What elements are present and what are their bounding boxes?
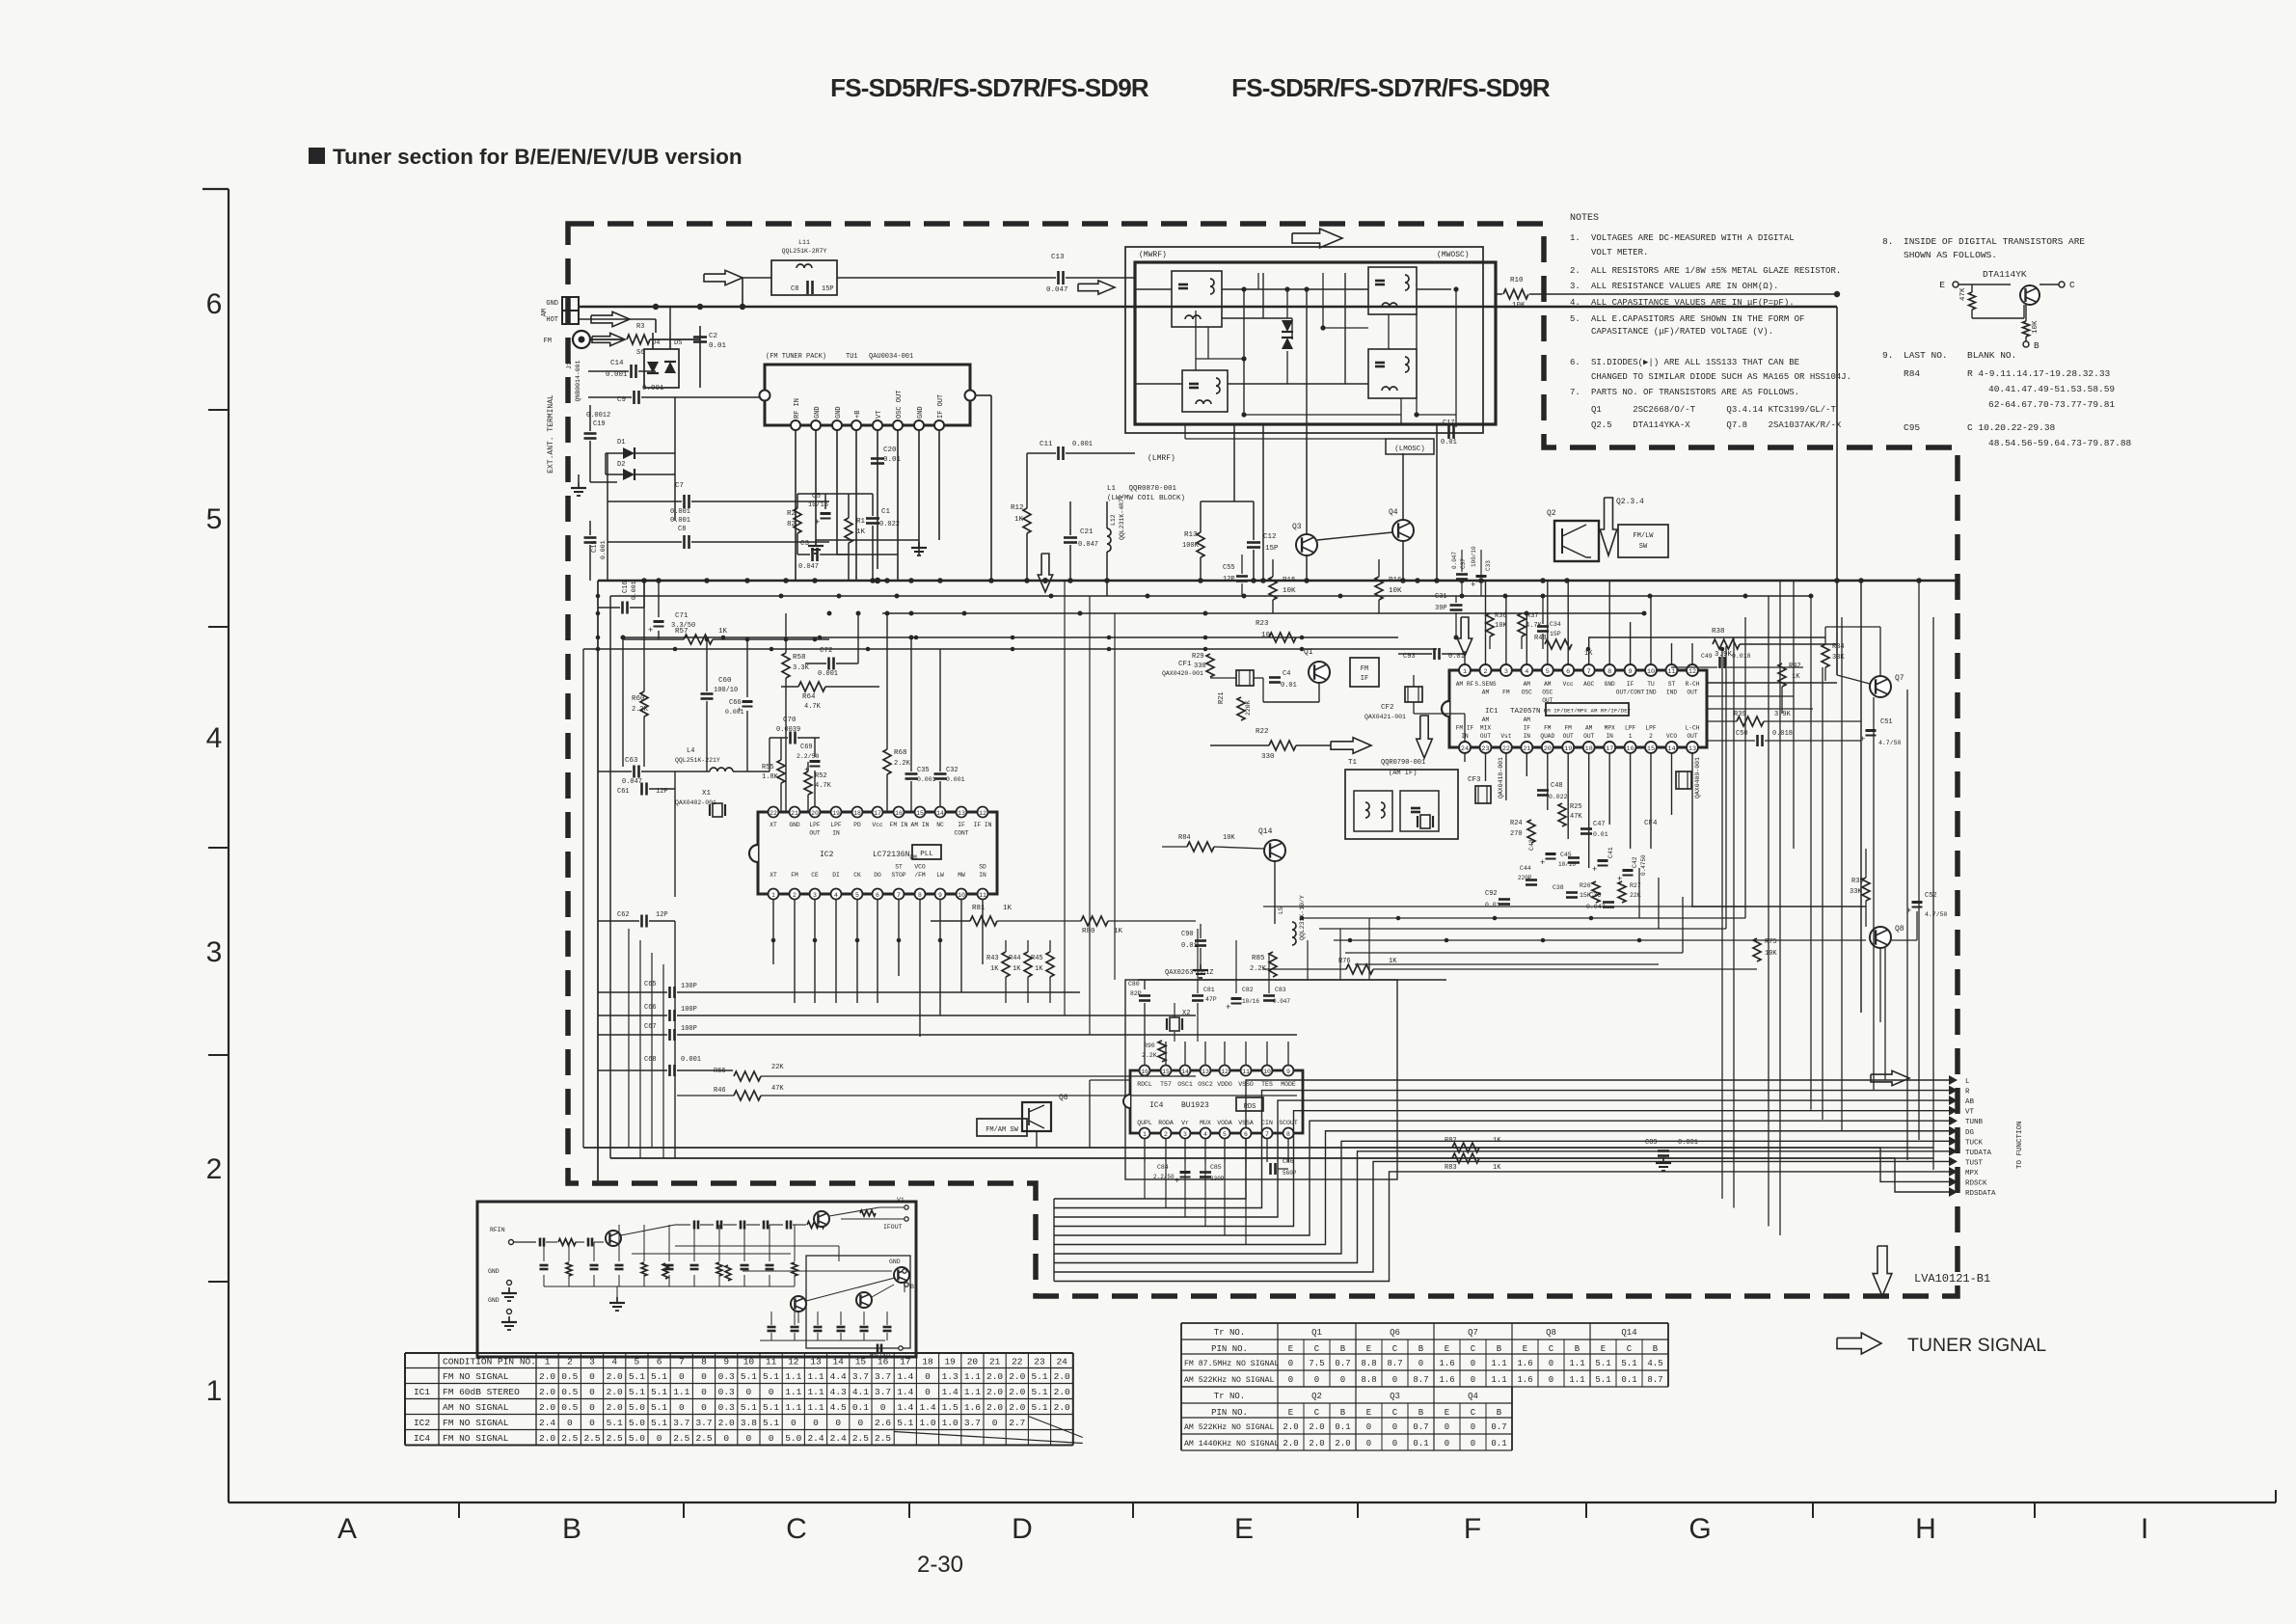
svg-text:0: 0 xyxy=(679,1371,685,1382)
svg-text:0.001: 0.001 xyxy=(631,581,637,600)
svg-text:82: 82 xyxy=(787,521,796,528)
svg-text:6: 6 xyxy=(206,288,223,320)
svg-text:0: 0 xyxy=(925,1387,931,1397)
svg-text:4.5: 4.5 xyxy=(1647,1359,1662,1368)
svg-text:7.5: 7.5 xyxy=(1309,1359,1324,1368)
svg-text:R68: R68 xyxy=(894,749,907,757)
svg-text:R36: R36 xyxy=(1495,612,1507,620)
svg-text:BU1923: BU1923 xyxy=(1181,1101,1209,1110)
svg-text:B: B xyxy=(1418,1408,1424,1418)
svg-text:1.6: 1.6 xyxy=(1439,1375,1454,1385)
svg-text:AGC: AGC xyxy=(1583,681,1594,688)
svg-text:100P: 100P xyxy=(681,1006,697,1014)
svg-text:0.001: 0.001 xyxy=(670,517,690,525)
svg-text:LVA10121-B1: LVA10121-B1 xyxy=(1914,1272,1990,1286)
svg-text:+: + xyxy=(1175,1177,1179,1186)
svg-text:5.1: 5.1 xyxy=(629,1371,645,1382)
svg-text:1.1: 1.1 xyxy=(785,1371,801,1382)
svg-text:C: C xyxy=(786,1513,807,1545)
svg-text:C12: C12 xyxy=(1263,533,1277,541)
svg-text:1: 1 xyxy=(206,1375,223,1407)
svg-text:1K: 1K xyxy=(718,628,728,636)
svg-text:0.3: 0.3 xyxy=(718,1387,735,1397)
svg-text:0: 0 xyxy=(657,1433,662,1444)
svg-text:CF4: CF4 xyxy=(1644,820,1658,827)
svg-text:ALL E.CAPASITORS ARE SHOWN IN: ALL E.CAPASITORS ARE SHOWN IN THE FORM O… xyxy=(1591,314,1804,324)
svg-text:(LMRF): (LMRF) xyxy=(1148,454,1175,463)
svg-text:2.0: 2.0 xyxy=(1009,1402,1025,1413)
svg-text:RDSCK: RDSCK xyxy=(1965,1180,1987,1188)
svg-text:L1 QQR0870-001: L1 QQR0870-001 xyxy=(1107,485,1177,493)
svg-text:330: 330 xyxy=(1194,663,1206,670)
svg-text:0: 0 xyxy=(791,1418,797,1428)
svg-text:2.0: 2.0 xyxy=(718,1418,735,1428)
svg-text:R1: R1 xyxy=(856,518,866,526)
svg-text:1.1: 1.1 xyxy=(1569,1375,1584,1385)
svg-text:0: 0 xyxy=(589,1387,595,1397)
svg-text:2.5: 2.5 xyxy=(583,1433,600,1444)
svg-text:47P: 47P xyxy=(1205,996,1217,1003)
svg-text:5.1: 5.1 xyxy=(607,1418,623,1428)
svg-text:PD: PD xyxy=(853,822,861,828)
svg-text:IN: IN xyxy=(1606,733,1613,740)
svg-text:100/10: 100/10 xyxy=(1471,546,1477,567)
svg-text:FM: FM xyxy=(1544,725,1552,732)
svg-text:TA2057N: TA2057N xyxy=(1510,708,1541,716)
svg-text:1.1: 1.1 xyxy=(807,1402,824,1413)
svg-text:2.6: 2.6 xyxy=(875,1418,891,1428)
svg-text:0: 0 xyxy=(1314,1375,1319,1385)
svg-text:19: 19 xyxy=(944,1357,956,1367)
svg-text:2-30: 2-30 xyxy=(917,1552,963,1578)
svg-text:2.7: 2.7 xyxy=(1009,1418,1025,1428)
svg-text:C95: C95 xyxy=(1904,422,1920,433)
svg-text:5.1: 5.1 xyxy=(763,1418,779,1428)
svg-text:FS-SD5R/FS-SD7R/FS-SD9R: FS-SD5R/FS-SD7R/FS-SD9R xyxy=(1231,73,1551,102)
svg-text:DG: DG xyxy=(1965,1129,1975,1137)
svg-text:FM NO SIGNAL: FM NO SIGNAL xyxy=(443,1433,509,1444)
svg-text:330P: 330P xyxy=(1210,1176,1225,1182)
svg-text:IF: IF xyxy=(1524,725,1531,732)
svg-text:13: 13 xyxy=(1688,745,1696,753)
svg-text:22: 22 xyxy=(1502,745,1510,753)
svg-text:TUNER SIGNAL: TUNER SIGNAL xyxy=(1907,1335,2046,1356)
svg-text:C20: C20 xyxy=(883,447,897,454)
svg-text:0.1: 0.1 xyxy=(852,1402,869,1413)
svg-text:GND: GND xyxy=(917,406,925,419)
svg-text:0.047: 0.047 xyxy=(798,563,819,571)
svg-text:PLL: PLL xyxy=(920,851,933,858)
svg-text:D2: D2 xyxy=(617,461,625,469)
svg-text:Q1: Q1 xyxy=(1304,648,1313,657)
svg-text:2: 2 xyxy=(1649,733,1653,740)
svg-text:0: 0 xyxy=(1418,1359,1423,1368)
svg-text:C72: C72 xyxy=(820,647,833,655)
svg-text:FM IF/DET/MPX AM RF/IF/DET: FM IF/DET/MPX AM RF/IF/DET xyxy=(1544,708,1632,715)
svg-text:GND: GND xyxy=(546,300,558,308)
svg-text:4.7/50: 4.7/50 xyxy=(1925,911,1948,918)
svg-text:QAX0420-001: QAX0420-001 xyxy=(1162,670,1203,677)
svg-text:B: B xyxy=(1575,1344,1580,1354)
svg-text:L4: L4 xyxy=(687,747,694,755)
svg-text:C89: C89 xyxy=(1645,1139,1658,1147)
svg-text:0: 0 xyxy=(1288,1375,1293,1385)
svg-text:IF: IF xyxy=(1627,681,1634,688)
svg-text:8.8: 8.8 xyxy=(1361,1359,1376,1368)
svg-text:V1: V1 xyxy=(897,1197,905,1204)
svg-text:FM: FM xyxy=(1502,690,1510,696)
svg-text:15: 15 xyxy=(916,810,924,817)
svg-text:0.018: 0.018 xyxy=(1772,730,1793,738)
svg-text:8.7: 8.7 xyxy=(1413,1375,1428,1385)
svg-text:OSCOUT: OSCOUT xyxy=(870,1352,892,1359)
svg-text:8: 8 xyxy=(1607,668,1611,676)
svg-text:0: 0 xyxy=(1445,1439,1449,1448)
svg-text:C81: C81 xyxy=(1203,987,1215,993)
svg-text:IC2: IC2 xyxy=(820,851,834,859)
svg-text:8.7: 8.7 xyxy=(1647,1375,1662,1385)
svg-text:AM 522KHz NO SIGNAL: AM 522KHz NO SIGNAL xyxy=(1184,1423,1274,1432)
svg-text:22: 22 xyxy=(1012,1357,1023,1367)
svg-text:R48: R48 xyxy=(1534,635,1547,642)
svg-text:R80: R80 xyxy=(1082,928,1095,935)
svg-text:PIN NO.: PIN NO. xyxy=(1211,1408,1248,1418)
svg-text:R52: R52 xyxy=(815,772,827,780)
svg-text:XT: XT xyxy=(770,872,777,879)
svg-text:2.0: 2.0 xyxy=(1283,1422,1298,1432)
svg-text:0: 0 xyxy=(1366,1439,1371,1448)
svg-text:1K: 1K xyxy=(1389,958,1397,965)
svg-text:IN: IN xyxy=(979,872,986,879)
svg-text:B: B xyxy=(1653,1344,1659,1354)
svg-text:R38: R38 xyxy=(1712,628,1725,636)
svg-text:6: 6 xyxy=(1566,668,1570,676)
svg-text:0: 0 xyxy=(701,1402,707,1413)
svg-text:IN: IN xyxy=(832,830,840,837)
svg-text:OSC OUT: OSC OUT xyxy=(896,391,904,419)
svg-text:R81: R81 xyxy=(972,905,986,912)
svg-text:E: E xyxy=(1366,1344,1371,1354)
svg-text:1K: 1K xyxy=(1014,516,1024,524)
svg-text:23: 23 xyxy=(1481,745,1489,753)
svg-text:11: 11 xyxy=(979,892,986,899)
svg-text:20: 20 xyxy=(967,1357,979,1367)
svg-text:1.1: 1.1 xyxy=(785,1402,801,1413)
svg-text:PIN NO.: PIN NO. xyxy=(1211,1344,1248,1354)
svg-text:D5: D5 xyxy=(674,339,682,347)
svg-text:C38: C38 xyxy=(1553,884,1564,891)
svg-text:Q3: Q3 xyxy=(1390,1392,1400,1401)
svg-text:MUX: MUX xyxy=(1200,1120,1211,1126)
svg-text:C35: C35 xyxy=(917,767,930,774)
svg-text:AM NO SIGNAL: AM NO SIGNAL xyxy=(443,1402,509,1413)
svg-text:2.0: 2.0 xyxy=(986,1371,1003,1382)
svg-text:0: 0 xyxy=(1288,1359,1293,1368)
svg-text:2.0: 2.0 xyxy=(607,1371,623,1382)
svg-text:5.1: 5.1 xyxy=(651,1418,667,1428)
svg-text:R21: R21 xyxy=(1218,691,1226,704)
svg-text:FM 60dB STEREO: FM 60dB STEREO xyxy=(443,1387,520,1397)
svg-text:C67: C67 xyxy=(644,1023,657,1031)
svg-text:2.0: 2.0 xyxy=(1283,1439,1298,1448)
svg-text:C69: C69 xyxy=(800,744,813,751)
svg-text:FM: FM xyxy=(544,338,552,345)
svg-text:1.0: 1.0 xyxy=(942,1418,959,1428)
svg-text:B: B xyxy=(910,1284,914,1290)
svg-text:VT: VT xyxy=(876,411,883,419)
svg-text:0: 0 xyxy=(880,1402,886,1413)
svg-text:2.5: 2.5 xyxy=(607,1433,623,1444)
svg-text:C71: C71 xyxy=(675,612,689,620)
svg-text:RFIN: RFIN xyxy=(490,1227,505,1233)
svg-text:2.5: 2.5 xyxy=(852,1433,869,1444)
svg-text:C: C xyxy=(1471,1344,1476,1354)
svg-text:5: 5 xyxy=(1223,1131,1227,1138)
svg-text:RF IN: RF IN xyxy=(794,398,801,419)
svg-text:0.001: 0.001 xyxy=(670,508,690,516)
svg-text:10K: 10K xyxy=(1389,587,1402,595)
svg-text:OUT: OUT xyxy=(1563,733,1574,740)
svg-text:AM: AM xyxy=(1482,690,1490,696)
svg-text:+: + xyxy=(815,518,820,528)
svg-text:C82: C82 xyxy=(1242,987,1254,993)
svg-text:0: 0 xyxy=(1471,1422,1475,1432)
svg-text:E: E xyxy=(1366,1408,1371,1418)
svg-text:1K: 1K xyxy=(1013,965,1021,973)
svg-text:0: 0 xyxy=(1471,1439,1475,1448)
svg-text:2.2K: 2.2K xyxy=(1142,1052,1157,1059)
svg-text:9.: 9. xyxy=(1882,350,1893,361)
svg-text:CF3: CF3 xyxy=(1468,776,1481,784)
svg-text:2.0: 2.0 xyxy=(1009,1371,1025,1382)
svg-text:E: E xyxy=(1288,1408,1293,1418)
svg-text:0.1: 0.1 xyxy=(1413,1439,1428,1448)
svg-text:12P: 12P xyxy=(1223,576,1235,583)
svg-text:AB: AB xyxy=(1965,1098,1975,1106)
svg-text:Q14: Q14 xyxy=(1621,1328,1636,1338)
svg-text:1.4: 1.4 xyxy=(897,1402,913,1413)
svg-text:QAU0034-001: QAU0034-001 xyxy=(869,353,913,361)
svg-text:0: 0 xyxy=(746,1433,752,1444)
svg-text:FM/AM SW: FM/AM SW xyxy=(986,1126,1018,1134)
svg-text:C41: C41 xyxy=(1607,847,1614,858)
svg-text:2.4: 2.4 xyxy=(539,1418,555,1428)
svg-text:1.5: 1.5 xyxy=(942,1402,959,1413)
svg-text:Q4: Q4 xyxy=(1389,508,1398,517)
svg-text:C47: C47 xyxy=(1593,821,1606,828)
svg-text:0.018: 0.018 xyxy=(1732,653,1751,660)
svg-text:SHOWN AS FOLLOWS.: SHOWN AS FOLLOWS. xyxy=(1904,250,1997,260)
svg-text:NC: NC xyxy=(936,822,944,828)
svg-text:C19: C19 xyxy=(593,420,606,428)
svg-text:Tuner section for B/E/EN/EV/UB: Tuner section for B/E/EN/EV/UB version xyxy=(333,145,743,169)
svg-text:0.047: 0.047 xyxy=(622,778,642,786)
svg-text:24: 24 xyxy=(1056,1357,1067,1367)
svg-text:R85: R85 xyxy=(1252,955,1265,962)
svg-text:0.01: 0.01 xyxy=(1441,439,1457,447)
svg-text:R46: R46 xyxy=(714,1087,726,1095)
svg-text:+: + xyxy=(1471,581,1475,590)
svg-text:3.7: 3.7 xyxy=(875,1371,891,1382)
svg-text:47K: 47K xyxy=(771,1085,784,1093)
svg-text:0.047: 0.047 xyxy=(1451,552,1458,569)
svg-text:3.7: 3.7 xyxy=(852,1371,869,1382)
svg-text:0.1: 0.1 xyxy=(1621,1375,1636,1385)
svg-text:OUT: OUT xyxy=(1480,733,1491,740)
svg-text:0: 0 xyxy=(925,1371,931,1382)
svg-text:12P: 12P xyxy=(656,911,668,919)
svg-text:E: E xyxy=(1601,1344,1606,1354)
svg-text:L5: L5 xyxy=(1278,907,1284,914)
svg-text:4.1: 4.1 xyxy=(852,1387,869,1397)
svg-text:7: 7 xyxy=(1587,668,1591,676)
svg-text:QQL251K-221Y: QQL251K-221Y xyxy=(675,757,720,764)
svg-text:0.3: 0.3 xyxy=(718,1402,735,1413)
svg-text:MW: MW xyxy=(958,872,965,879)
svg-text:0: 0 xyxy=(723,1433,729,1444)
svg-text:TO FUNCTION: TO FUNCTION xyxy=(2016,1121,2024,1169)
svg-text:VOLT METER.: VOLT METER. xyxy=(1591,248,1648,257)
svg-text:TUNB: TUNB xyxy=(1965,1119,1984,1126)
svg-text:OSC: OSC xyxy=(1542,690,1553,696)
svg-text:0.3: 0.3 xyxy=(718,1371,735,1382)
svg-text:1.1: 1.1 xyxy=(964,1371,981,1382)
svg-text:IC2: IC2 xyxy=(414,1418,430,1428)
svg-text:R15: R15 xyxy=(1283,577,1296,584)
svg-text:C: C xyxy=(2069,280,2075,290)
svg-text:INSIDE OF DIGITAL TRANSISTORS: INSIDE OF DIGITAL TRANSISTORS ARE xyxy=(1904,236,2085,247)
svg-text:OUT/CONT: OUT/CONT xyxy=(1616,690,1645,696)
svg-text:(FM TUNER PACK): (FM TUNER PACK) xyxy=(766,353,826,361)
svg-text:0.7: 0.7 xyxy=(1413,1422,1428,1432)
svg-text:QQL231K-10/Y: QQL231K-10/Y xyxy=(1299,895,1306,940)
svg-text:15: 15 xyxy=(1162,1069,1170,1075)
svg-text:R83: R83 xyxy=(1445,1164,1457,1172)
svg-text:ST: ST xyxy=(895,864,903,871)
svg-text:(LW/MW COIL BLOCK): (LW/MW COIL BLOCK) xyxy=(1107,495,1185,502)
svg-text:100K: 100K xyxy=(1182,542,1200,550)
svg-text:IN: IN xyxy=(1524,733,1531,740)
svg-text:R13: R13 xyxy=(1184,531,1198,539)
svg-text:CF1: CF1 xyxy=(1178,661,1192,668)
svg-text:12: 12 xyxy=(979,810,986,817)
svg-text:3.: 3. xyxy=(1570,282,1580,291)
svg-text:2.2/50: 2.2/50 xyxy=(797,753,820,760)
svg-text:FM NO SIGNAL: FM NO SIGNAL xyxy=(443,1371,509,1382)
svg-text:4: 4 xyxy=(1525,668,1528,676)
svg-text:AM: AM xyxy=(1544,681,1552,688)
svg-text:R37: R37 xyxy=(1526,612,1539,620)
svg-text:C44: C44 xyxy=(1520,865,1531,872)
svg-text:0: 0 xyxy=(679,1402,685,1413)
svg-text:5.0: 5.0 xyxy=(629,1418,645,1428)
svg-text:2.5: 2.5 xyxy=(673,1433,689,1444)
svg-text:NOTES: NOTES xyxy=(1570,213,1599,224)
svg-text:C17: C17 xyxy=(1443,420,1455,427)
svg-text:0: 0 xyxy=(769,1387,774,1397)
svg-text:0.001: 0.001 xyxy=(946,776,965,783)
svg-text:2.0: 2.0 xyxy=(1054,1371,1070,1382)
svg-text:R26: R26 xyxy=(1580,882,1591,889)
svg-text:6: 6 xyxy=(1244,1131,1248,1138)
svg-text:ALL RESISTORS ARE 1/8W ±5% MET: ALL RESISTORS ARE 1/8W ±5% METAL GLAZE R… xyxy=(1591,266,1841,276)
svg-text:5: 5 xyxy=(855,892,859,899)
svg-text:B: B xyxy=(1340,1344,1346,1354)
svg-text:0.047: 0.047 xyxy=(1273,998,1290,1005)
svg-text:20: 20 xyxy=(811,810,819,817)
svg-text:FM: FM xyxy=(1361,665,1368,673)
svg-text:C11: C11 xyxy=(1040,441,1053,448)
svg-text:2.0: 2.0 xyxy=(1009,1387,1025,1397)
svg-text:Tr NO.: Tr NO. xyxy=(1214,1392,1245,1401)
svg-text:4: 4 xyxy=(206,722,223,754)
svg-text:C2: C2 xyxy=(709,333,717,340)
svg-text:B: B xyxy=(1340,1408,1346,1418)
svg-text:1: 1 xyxy=(771,892,775,899)
svg-text:E: E xyxy=(1939,280,1945,290)
svg-text:EXT.ANT. TERMINAL: EXT.ANT. TERMINAL xyxy=(547,394,555,474)
svg-text:0.047: 0.047 xyxy=(1586,904,1606,910)
svg-text:Q6: Q6 xyxy=(1059,1094,1068,1102)
svg-text:FS-SD5R/FS-SD7R/FS-SD9R: FS-SD5R/FS-SD7R/FS-SD9R xyxy=(830,73,1149,102)
svg-text:5.: 5. xyxy=(1570,314,1580,324)
svg-text:21: 21 xyxy=(989,1357,1001,1367)
svg-text:3: 3 xyxy=(206,936,223,968)
svg-text:FM 87.5MHz NO SIGNAL: FM 87.5MHz NO SIGNAL xyxy=(1184,1360,1279,1368)
svg-text:LPF: LPF xyxy=(1625,725,1635,732)
svg-text:C 10.20.22-29.38: C 10.20.22-29.38 xyxy=(1967,422,2056,433)
svg-text:Q14: Q14 xyxy=(1258,827,1273,836)
svg-text:DTA114YK: DTA114YK xyxy=(1983,269,2027,280)
svg-text:GND: GND xyxy=(789,822,800,828)
svg-text:FM NO SIGNAL: FM NO SIGNAL xyxy=(443,1418,509,1428)
svg-text:R22: R22 xyxy=(1256,728,1269,736)
svg-text:R60: R60 xyxy=(632,695,645,703)
svg-text:100P: 100P xyxy=(681,1025,697,1033)
svg-text:33K: 33K xyxy=(1832,654,1845,662)
svg-text:L: L xyxy=(1965,1078,1970,1086)
svg-text:TUCK: TUCK xyxy=(1965,1139,1984,1147)
svg-text:0.001: 0.001 xyxy=(917,776,936,783)
svg-text:R23: R23 xyxy=(1256,620,1269,628)
svg-text:2: 2 xyxy=(793,892,797,899)
svg-text:Q8: Q8 xyxy=(1895,925,1904,934)
svg-text:C: C xyxy=(1314,1344,1320,1354)
svg-text:0.001: 0.001 xyxy=(642,385,664,392)
svg-text:FM: FM xyxy=(791,872,798,879)
svg-text:5.1: 5.1 xyxy=(763,1402,779,1413)
svg-text:C50: C50 xyxy=(1736,730,1748,738)
svg-text:1: 1 xyxy=(1143,1131,1147,1138)
svg-text:0.1: 0.1 xyxy=(1335,1422,1350,1432)
svg-text:E: E xyxy=(1445,1344,1449,1354)
svg-text:21: 21 xyxy=(1523,745,1530,753)
svg-text:10K: 10K xyxy=(1283,587,1296,595)
svg-text:2.4: 2.4 xyxy=(830,1433,847,1444)
svg-text:47K: 47K xyxy=(1570,813,1582,821)
svg-text:10K: 10K xyxy=(1765,950,1777,958)
svg-text:+: + xyxy=(1860,735,1865,744)
svg-text:IF: IF xyxy=(958,822,965,828)
svg-text:(MWRF): (MWRF) xyxy=(1139,251,1167,259)
svg-text:C21: C21 xyxy=(1080,528,1094,536)
svg-text:0.01: 0.01 xyxy=(1281,682,1297,690)
svg-text:R84: R84 xyxy=(1178,834,1191,842)
svg-text:G: G xyxy=(1688,1513,1711,1545)
svg-text:R10: R10 xyxy=(1510,277,1524,284)
svg-text:1.4: 1.4 xyxy=(942,1387,959,1397)
svg-text:2.5: 2.5 xyxy=(695,1433,712,1444)
